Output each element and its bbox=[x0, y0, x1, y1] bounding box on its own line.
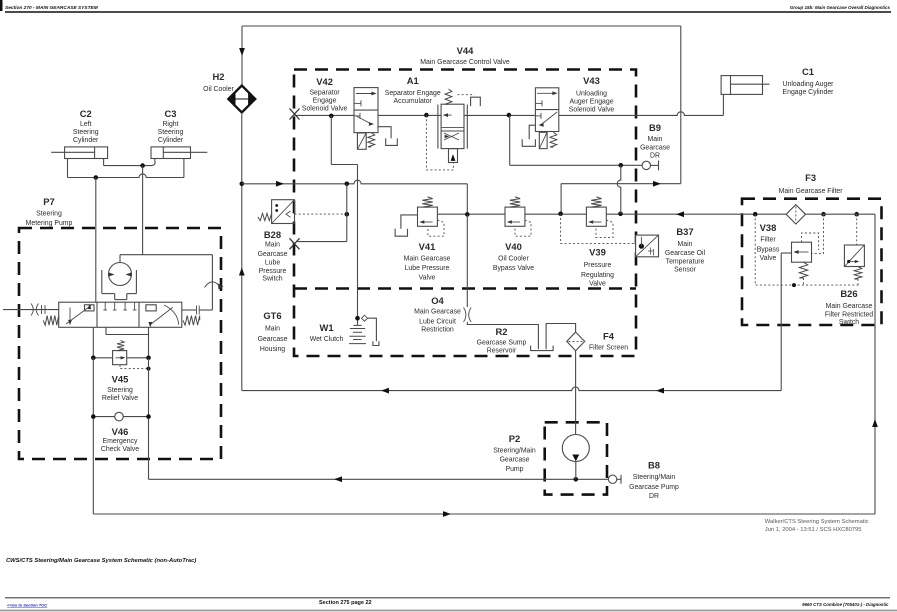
svg-text:Regulating: Regulating bbox=[581, 272, 614, 279]
svg-text:Auger Engage: Auger Engage bbox=[569, 98, 613, 105]
svg-text:Left: Left bbox=[80, 121, 92, 128]
svg-text:Separator Engage: Separator Engage bbox=[385, 90, 441, 97]
svg-text:Reservoir: Reservoir bbox=[487, 347, 517, 354]
svg-text:<<Go to Section TOC: <<Go to Section TOC bbox=[7, 602, 47, 607]
svg-text:B8: B8 bbox=[648, 460, 660, 471]
svg-text:V46: V46 bbox=[112, 426, 129, 437]
svg-text:P2: P2 bbox=[509, 433, 520, 444]
svg-text:Solenoid Valve: Solenoid Valve bbox=[569, 106, 615, 113]
svg-text:Sensor: Sensor bbox=[674, 267, 697, 274]
svg-text:Gearcase Oil: Gearcase Oil bbox=[665, 250, 706, 257]
svg-text:Lube Circuit: Lube Circuit bbox=[419, 318, 456, 325]
svg-text:B26: B26 bbox=[840, 288, 857, 299]
svg-text:Main: Main bbox=[678, 241, 693, 248]
svg-text:Pressure: Pressure bbox=[584, 262, 612, 269]
svg-text:Valve: Valve bbox=[419, 274, 436, 281]
svg-text:Temperature: Temperature bbox=[666, 259, 705, 266]
svg-text:V42: V42 bbox=[316, 76, 333, 87]
svg-text:Lube Pressure: Lube Pressure bbox=[405, 265, 450, 272]
svg-text:V41: V41 bbox=[419, 241, 436, 252]
svg-text:Valve: Valve bbox=[760, 255, 777, 262]
svg-text:Filter Restricted: Filter Restricted bbox=[825, 312, 873, 319]
svg-text:A1: A1 bbox=[407, 75, 419, 86]
svg-text:Engage Cylinder: Engage Cylinder bbox=[783, 89, 835, 96]
svg-text:Oil Cooler: Oil Cooler bbox=[498, 255, 529, 262]
svg-text:DR: DR bbox=[649, 493, 659, 500]
svg-text:V45: V45 bbox=[112, 374, 129, 385]
svg-text:Oil Cooler: Oil Cooler bbox=[203, 86, 234, 93]
svg-text:Filter Screen: Filter Screen bbox=[589, 344, 628, 351]
svg-text:Walker/CTS Steering System Sch: Walker/CTS Steering System Schematic bbox=[765, 519, 869, 525]
svg-text:Unloading: Unloading bbox=[576, 90, 607, 97]
svg-text:Main Gearcase: Main Gearcase bbox=[414, 309, 461, 316]
svg-text:Check Valve: Check Valve bbox=[101, 446, 139, 453]
svg-text:H2: H2 bbox=[213, 71, 225, 82]
svg-text:Bypass Valve: Bypass Valve bbox=[493, 265, 534, 272]
svg-text:C2: C2 bbox=[80, 108, 92, 119]
svg-text:Steering: Steering bbox=[158, 129, 184, 136]
svg-text:R2: R2 bbox=[496, 326, 508, 337]
svg-text:V40: V40 bbox=[505, 241, 522, 252]
svg-text:B37: B37 bbox=[676, 226, 693, 237]
svg-text:Gearcase: Gearcase bbox=[500, 457, 530, 464]
svg-text:Steering: Steering bbox=[36, 211, 62, 218]
svg-text:Steering: Steering bbox=[73, 129, 99, 136]
svg-text:Switch: Switch bbox=[839, 319, 859, 326]
svg-text:Wet Clutch: Wet Clutch bbox=[310, 336, 344, 343]
svg-text:Gearcase: Gearcase bbox=[258, 251, 288, 258]
svg-text:Gearcase Sump: Gearcase Sump bbox=[477, 339, 527, 346]
svg-text:Main: Main bbox=[265, 326, 280, 333]
svg-text:Steering: Steering bbox=[107, 387, 133, 394]
svg-text:Main Gearcase: Main Gearcase bbox=[826, 303, 873, 310]
svg-text:V38: V38 bbox=[760, 222, 777, 233]
svg-text:9660 CTS Combine (705401-) - D: 9660 CTS Combine (705401-) - Diagnostic bbox=[802, 602, 889, 607]
svg-text:Valve: Valve bbox=[589, 281, 606, 288]
svg-text:Accumulator: Accumulator bbox=[394, 98, 433, 105]
svg-text:Emergency: Emergency bbox=[103, 438, 138, 445]
svg-text:P7: P7 bbox=[43, 196, 54, 207]
svg-text:Steering/Main: Steering/Main bbox=[493, 448, 536, 455]
svg-text:V44: V44 bbox=[457, 45, 474, 56]
svg-text:Right: Right bbox=[162, 121, 178, 128]
svg-text:Pump: Pump bbox=[505, 466, 523, 473]
svg-text:Solenoid Valve: Solenoid Valve bbox=[302, 106, 348, 113]
svg-text:Engage: Engage bbox=[313, 98, 337, 105]
svg-text:W1: W1 bbox=[319, 322, 333, 333]
svg-text:Main Gearcase Control Valve: Main Gearcase Control Valve bbox=[420, 59, 510, 66]
svg-text:Lube: Lube bbox=[265, 260, 280, 267]
svg-text:Metering Pump: Metering Pump bbox=[26, 220, 73, 227]
svg-text:C1: C1 bbox=[802, 66, 814, 77]
svg-text:Section 270 - MAIN GEARCASE SY: Section 270 - MAIN GEARCASE SYSTEM bbox=[5, 5, 99, 11]
svg-text:V43: V43 bbox=[583, 75, 600, 86]
svg-text:Group 15b: Main Gearcase Overa: Group 15b: Main Gearcase Overall Diagnos… bbox=[790, 5, 891, 10]
svg-text:Cylinder: Cylinder bbox=[158, 137, 184, 144]
svg-text:GT6: GT6 bbox=[263, 310, 281, 321]
svg-text:Filter: Filter bbox=[760, 236, 776, 243]
svg-text:F3: F3 bbox=[805, 172, 816, 183]
svg-text:Gearcase Pump: Gearcase Pump bbox=[629, 484, 679, 491]
svg-text:DR: DR bbox=[650, 153, 660, 160]
svg-text:Housing: Housing bbox=[260, 346, 285, 353]
svg-text:Cylinder: Cylinder bbox=[73, 137, 99, 144]
svg-text:Steering/Main: Steering/Main bbox=[633, 474, 676, 481]
svg-text:B9: B9 bbox=[649, 122, 661, 133]
svg-text:C3: C3 bbox=[165, 108, 177, 119]
svg-text:F4: F4 bbox=[603, 331, 615, 342]
svg-text:Section 275 page 22: Section 275 page 22 bbox=[319, 600, 372, 606]
svg-text:Separator: Separator bbox=[309, 90, 340, 97]
svg-text:O4: O4 bbox=[431, 295, 444, 306]
svg-text:Main Gearcase Filter: Main Gearcase Filter bbox=[779, 188, 844, 195]
svg-text:Switch: Switch bbox=[262, 276, 282, 283]
svg-text:Bypass: Bypass bbox=[757, 246, 780, 253]
svg-text:Main: Main bbox=[648, 136, 663, 143]
svg-text:Pressure: Pressure bbox=[259, 268, 287, 275]
svg-text:Gearcase: Gearcase bbox=[640, 145, 670, 152]
svg-text:Main Gearcase: Main Gearcase bbox=[404, 255, 451, 262]
svg-text:CWS/CTS Steering/Main Gearcase: CWS/CTS Steering/Main Gearcase System Sc… bbox=[6, 558, 196, 564]
svg-text:Main: Main bbox=[265, 242, 280, 249]
svg-text:Unloading Auger: Unloading Auger bbox=[783, 81, 835, 88]
svg-text:B28: B28 bbox=[264, 229, 281, 240]
svg-text:Relief Valve: Relief Valve bbox=[102, 395, 138, 402]
svg-text:V39: V39 bbox=[589, 247, 606, 258]
svg-text:Gearcase: Gearcase bbox=[258, 336, 288, 343]
svg-text:Restriction: Restriction bbox=[421, 326, 454, 333]
svg-text:Jun 1, 2004 - 13:51 / SCS H: Jun 1, 2004 - 13:51 / SCS HXC80795 bbox=[765, 527, 862, 533]
